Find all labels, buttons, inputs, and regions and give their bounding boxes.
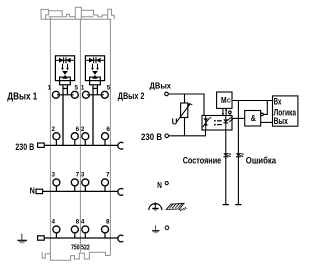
- svg-text:ДВых 2: ДВых 2: [118, 91, 145, 101]
- svg-text:7: 7: [106, 172, 110, 179]
- svg-text:&: &: [251, 114, 256, 123]
- svg-text:3: 3: [81, 172, 85, 179]
- svg-text:ДВых 1: ДВых 1: [7, 91, 37, 102]
- svg-text:8: 8: [76, 219, 80, 226]
- svg-text:750: 750: [71, 244, 80, 251]
- svg-text:1: 1: [48, 84, 52, 91]
- svg-text:3: 3: [52, 172, 56, 179]
- svg-text:5: 5: [75, 84, 79, 91]
- svg-text:522: 522: [81, 244, 90, 251]
- svg-text:230 В: 230 В: [141, 132, 162, 142]
- svg-text:Ошибка: Ошибка: [246, 155, 277, 166]
- svg-text:1: 1: [81, 84, 85, 91]
- svg-text:2: 2: [81, 126, 85, 133]
- svg-text:Вх: Вх: [274, 97, 282, 108]
- svg-text:2: 2: [52, 126, 56, 133]
- svg-text:U: U: [172, 117, 178, 126]
- svg-text:4: 4: [81, 219, 85, 226]
- svg-text:Состояние: Состояние: [183, 155, 222, 166]
- svg-text:6: 6: [76, 126, 80, 133]
- svg-text:6: 6: [106, 126, 110, 133]
- svg-text:Вых: Вых: [274, 116, 289, 127]
- svg-text:5: 5: [107, 84, 111, 91]
- svg-text:4: 4: [52, 219, 56, 226]
- svg-text:8: 8: [106, 219, 110, 226]
- svg-text:N: N: [157, 181, 162, 190]
- svg-text:М: М: [221, 95, 227, 105]
- svg-text:ДВых: ДВых: [150, 81, 172, 91]
- svg-text:7: 7: [76, 172, 80, 179]
- svg-text:N: N: [30, 186, 35, 196]
- svg-text:С: С: [227, 99, 231, 105]
- svg-text:230 В: 230 В: [15, 142, 34, 152]
